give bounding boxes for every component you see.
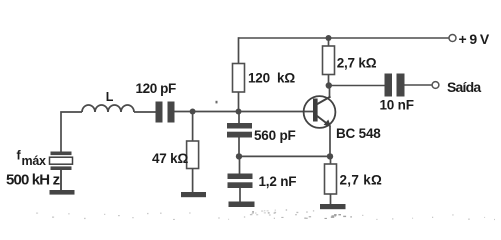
terminal +9V (449, 35, 456, 42)
ground under emitter resistor (320, 204, 346, 209)
svg-text:+ 9 V: + 9 V (459, 31, 490, 47)
resistor R4 2.7k emitter (325, 164, 337, 194)
svg-text:2,7 kΩ: 2,7 kΩ (337, 56, 377, 71)
node emitter junction (327, 153, 333, 159)
ground under 1.2nF (229, 202, 255, 208)
resistor R1 47k (187, 141, 199, 169)
crystal X1 (50, 152, 73, 171)
resistor R3 2.7k collector (323, 46, 335, 75)
wire 2.7k bottom to collector node (328, 75, 330, 86)
wire inductor to capacitor 120pF (134, 111, 156, 113)
resistor R2 120k (233, 64, 245, 93)
wire junction down to 1.2nF (239, 156, 241, 173)
wire crystal bottom to ground (60, 170, 62, 190)
node junction 560pF/1.2nF (236, 153, 242, 159)
wire emitter node to 2.7k (330, 156, 332, 164)
wire rail corner down to 120k (238, 37, 240, 63)
svg-text:2,7 kΩ: 2,7 kΩ (340, 172, 383, 187)
wire 10nF to Saida terminal (405, 84, 433, 86)
wire collector node to 10nF (329, 85, 385, 87)
ground under 47k (181, 192, 206, 197)
capacitor C3 1.2nF (228, 174, 253, 189)
wire emitter down (329, 126, 331, 157)
scan noise bottom (36, 209, 495, 220)
node collector junction (326, 82, 332, 88)
svg-text:47 kΩ: 47 kΩ (152, 151, 188, 166)
capacitor C4 10nF (385, 74, 405, 97)
wire top rail (239, 37, 450, 39)
svg-text:120 kΩ: 120 kΩ (248, 71, 295, 86)
wire 2.7k emitter to ground (330, 194, 332, 204)
wire 120k bottom to signal node (238, 92, 240, 112)
terminal Saida (432, 82, 439, 89)
wire junction to emitter node (239, 155, 330, 157)
wire 1.2nF to ground (239, 188, 241, 202)
svg-text:máx: máx (22, 154, 46, 168)
wire collector node down to transistor (329, 86, 331, 99)
wire signal line to transistor base (175, 111, 314, 113)
node junction 47k tap (190, 109, 196, 115)
svg-text:L: L (106, 90, 114, 104)
scan speck (216, 101, 218, 104)
node junction 120k / 560pF tap (236, 109, 242, 115)
wire 560pF top (238, 112, 240, 124)
capacitor C2 560pF (227, 123, 252, 138)
wire rail to 2.7k (328, 38, 330, 46)
svg-text:BC 548: BC 548 (336, 126, 381, 141)
svg-text:500 kH z: 500 kH z (6, 172, 60, 189)
capacitor C1 120pF (156, 102, 175, 123)
transistor Q1 BC548 (304, 96, 336, 128)
ground under crystal (50, 190, 75, 195)
label fmax (17, 149, 46, 169)
inductor L (82, 105, 134, 112)
svg-text:560 pF: 560 pF (254, 128, 296, 143)
wire 560pF bottom to junction (238, 138, 240, 157)
svg-text:1,2 nF: 1,2 nF (259, 174, 297, 189)
wire down to 47k (192, 112, 194, 142)
node junction rail / 2.7k collector resistor (326, 35, 332, 41)
svg-text:Saída: Saída (447, 79, 481, 95)
svg-text:10 nF: 10 nF (380, 98, 414, 113)
svg-text:120 pF: 120 pF (136, 81, 177, 96)
wire crystal top to inductor (61, 112, 82, 152)
wire 47k to ground (192, 169, 194, 193)
